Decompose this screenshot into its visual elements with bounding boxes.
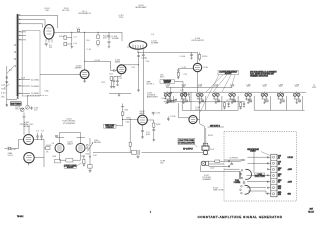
svg-text:R-104: R-104 bbox=[59, 36, 65, 38]
ground bbox=[152, 140, 155, 142]
svg-text:R-12: R-12 bbox=[101, 82, 105, 84]
terminal pin numbers bbox=[267, 157, 268, 196]
tube V101 RF oscillator bbox=[44, 25, 54, 40]
svg-text:J-102: J-102 bbox=[210, 168, 214, 170]
capacitor C102 bbox=[45, 44, 48, 47]
wire V1 plate bus bbox=[54, 31, 122, 33]
range stage I bbox=[293, 93, 300, 103]
svg-text:NOTE 1: NOTE 1 bbox=[147, 84, 155, 86]
wire V102 plate bbox=[121, 63, 126, 66]
B plus note wire bbox=[208, 126, 225, 128]
coil tap stub 5 bbox=[19, 85, 30, 87]
stage labels bbox=[165, 84, 316, 100]
bus junction dots bbox=[167, 92, 297, 93]
coil tap stub 1 bbox=[19, 31, 26, 33]
range stage F bbox=[245, 93, 252, 103]
ground bbox=[70, 47, 73, 49]
linkage dash line bbox=[27, 94, 48, 96]
svg-text:BUS: BUS bbox=[278, 188, 281, 190]
cathode bus bbox=[60, 153, 81, 161]
svg-text:3-12: 3-12 bbox=[279, 86, 282, 88]
resistor R150 bbox=[215, 160, 220, 162]
svg-text:3-12: 3-12 bbox=[263, 86, 266, 88]
svg-text:TRIMMER CAPACITOR: TRIMMER CAPACITOR bbox=[250, 74, 269, 77]
wire top feed 3 bbox=[19, 24, 43, 28]
tuning cap feed bbox=[26, 95, 28, 105]
svg-text:TM 4-17: TM 4-17 bbox=[308, 211, 314, 213]
trimmer C6B bbox=[20, 108, 24, 112]
svg-text:MIXER AMP: MIXER AMP bbox=[135, 6, 147, 9]
svg-text:W-101: W-101 bbox=[208, 135, 213, 137]
capacitor C60 bbox=[55, 136, 58, 137]
grid RC cluster bbox=[177, 69, 193, 79]
polarized caps bbox=[243, 181, 245, 185]
coil tap stub 3 bbox=[19, 39, 26, 41]
cathode network bbox=[114, 74, 121, 77]
tube V106 output amp bbox=[138, 115, 148, 125]
pot output column bbox=[89, 153, 91, 165]
svg-text:R-101: R-101 bbox=[46, 145, 52, 147]
reference designator and value labels bbox=[1, 5, 250, 192]
svg-text:J-101: J-101 bbox=[210, 149, 214, 151]
svg-text:C-2: C-2 bbox=[36, 131, 39, 133]
svg-text:R-83: R-83 bbox=[125, 110, 129, 112]
svg-text:C-4: C-4 bbox=[52, 143, 55, 145]
svg-text:Z-101: Z-101 bbox=[127, 47, 131, 49]
balance resistor R61 bbox=[66, 158, 73, 162]
trimmer C6A bbox=[26, 105, 30, 109]
connector J101 assembly bbox=[202, 143, 209, 155]
wire bypass column bbox=[138, 56, 140, 90]
svg-text:R-58: R-58 bbox=[52, 156, 56, 158]
capacitor C54A bbox=[137, 52, 140, 56]
capacitor C119 hang bbox=[243, 102, 245, 107]
svg-text:30 MMF: 30 MMF bbox=[151, 43, 159, 45]
wire coilbox to buffer grid bbox=[40, 73, 80, 75]
svg-text:6.3V: 6.3V bbox=[278, 162, 281, 164]
level label box bbox=[64, 165, 77, 169]
transformer T101 core bbox=[240, 172, 241, 180]
ground bbox=[83, 81, 86, 83]
svg-text:R-11: R-11 bbox=[109, 74, 113, 76]
svg-text:TM 44-2: TM 44-2 bbox=[17, 216, 23, 218]
svg-text:3-12: 3-12 bbox=[247, 86, 250, 88]
wire label to grid column bbox=[116, 125, 123, 127]
capacitor C131 bbox=[167, 117, 170, 122]
tube V102B crystal osc bbox=[24, 153, 34, 163]
terminal board TB101 bbox=[269, 154, 277, 197]
output label box bbox=[178, 138, 195, 144]
capacitor C103 bbox=[108, 32, 111, 46]
oscillator bus upper bbox=[166, 86, 232, 88]
svg-text:12AU7: 12AU7 bbox=[67, 143, 74, 146]
svg-text:SECT: SECT bbox=[160, 77, 165, 79]
extra cap C121 bbox=[116, 76, 119, 85]
grid feed caps top bbox=[23, 113, 30, 135]
pointer to connector bbox=[195, 144, 198, 147]
svg-text:RF OUTPUT: RF OUTPUT bbox=[183, 149, 193, 151]
svg-text:3-12: 3-12 bbox=[230, 86, 233, 88]
resistor R63 bbox=[83, 155, 85, 167]
capacitor C6C bbox=[30, 107, 32, 111]
range stage C bbox=[197, 93, 204, 103]
svg-text:C-55: C-55 bbox=[131, 67, 135, 69]
range stage G bbox=[261, 93, 268, 103]
capacitor C65 bbox=[88, 165, 92, 169]
resistor R130 bbox=[152, 120, 155, 140]
tube V103 oscillator bbox=[193, 63, 201, 71]
grid capacitor C11 bbox=[111, 69, 118, 72]
svg-text:REAR VIEW: REAR VIEW bbox=[255, 175, 265, 178]
wire coax feed bbox=[197, 96, 205, 127]
svg-text:SEE NOTE 2: SEE NOTE 2 bbox=[210, 125, 220, 127]
resistor R105 bbox=[64, 42, 67, 45]
variable capacitor C26A bbox=[165, 99, 177, 104]
wire buffer cathode bbox=[84, 79, 86, 81]
jack J102 bbox=[201, 161, 209, 166]
svg-text:6AQ5: 6AQ5 bbox=[139, 112, 145, 115]
potentiometer R160 bbox=[86, 138, 93, 153]
tube V102A crystal osc bbox=[24, 135, 34, 145]
resistor R102 bbox=[97, 32, 99, 46]
svg-text:C-65: C-65 bbox=[93, 155, 97, 157]
V106 cathode chain bbox=[141, 125, 144, 137]
grounds bbox=[110, 86, 115, 88]
svg-text:CONSTANT-AMPLITUDE SIGNAL GENE: CONSTANT-AMPLITUDE SIGNAL GENERATOR bbox=[198, 215, 283, 219]
coil tap stub 6 bbox=[19, 93, 30, 95]
fine tune feed bbox=[179, 103, 189, 118]
svg-text:5-25: 5-25 bbox=[174, 100, 177, 102]
switch rear view box bbox=[255, 173, 265, 178]
ground bbox=[136, 156, 139, 158]
trimmer label box bbox=[160, 80, 175, 85]
svg-text:OSCILLATOR: OSCILLATOR bbox=[191, 39, 204, 42]
wire to V103 bbox=[197, 52, 199, 63]
resistor R119 hang bbox=[239, 102, 241, 110]
svg-text:R-63: R-63 bbox=[86, 154, 90, 156]
stub resistor E1 bbox=[27, 163, 32, 166]
resistor R118 hang bbox=[223, 102, 225, 110]
svg-text:INTERMED B: INTERMED B bbox=[78, 13, 91, 15]
svg-text:C-56: C-56 bbox=[146, 61, 150, 63]
svg-text:3-12: 3-12 bbox=[295, 86, 298, 88]
svg-text:1.5-7: 1.5-7 bbox=[195, 109, 199, 111]
coarse frequency label box bbox=[218, 70, 239, 75]
range stage D bbox=[213, 93, 220, 103]
alignment note text bbox=[250, 70, 277, 77]
capacitor C106 bbox=[190, 52, 193, 59]
callout drop bbox=[253, 151, 255, 173]
svg-text:S2 FRONT: S2 FRONT bbox=[230, 158, 238, 160]
wire jack lines right bbox=[209, 161, 241, 166]
plate supply lines bbox=[56, 133, 86, 144]
wire V106 plate right bbox=[147, 119, 154, 121]
strip feed wires bbox=[247, 157, 269, 194]
svg-text:R-88: R-88 bbox=[146, 134, 150, 136]
wire from label box bbox=[175, 82, 184, 88]
coil tap stub 4 bbox=[19, 79, 30, 81]
wire buffer plate feed bbox=[84, 32, 86, 70]
wire V103 cathode down bbox=[197, 72, 199, 93]
svg-text:R-22: R-22 bbox=[246, 100, 250, 102]
wire jack to panel bbox=[201, 165, 240, 171]
cathode bus line bbox=[109, 93, 131, 95]
tube V102 amplifier bbox=[117, 65, 126, 74]
svg-text:CHAMBER: CHAMBER bbox=[202, 178, 211, 181]
svg-text:S-1: S-1 bbox=[9, 70, 12, 72]
wire crystal to grid bbox=[14, 140, 24, 149]
left drop R87 bbox=[129, 119, 131, 152]
svg-text:C-12: C-12 bbox=[119, 78, 123, 80]
wire B feed long bbox=[142, 56, 144, 115]
svg-text:10 MMF: 10 MMF bbox=[112, 38, 120, 40]
linkage diagonals bbox=[200, 75, 236, 113]
svg-text:40-75MC: 40-75MC bbox=[31, 80, 40, 82]
svg-text:METER: METER bbox=[94, 142, 102, 144]
stage return bus right bbox=[254, 109, 304, 111]
svg-text:6AH6: 6AH6 bbox=[115, 61, 121, 64]
svg-text:3-12: 3-12 bbox=[182, 86, 185, 88]
svg-text:C-130: C-130 bbox=[170, 116, 176, 118]
tube V101B buffer bbox=[80, 70, 89, 79]
stage return verticals left bbox=[174, 96, 239, 110]
svg-text:+105V: +105V bbox=[288, 181, 292, 183]
svg-text:OSC TUNE: OSC TUNE bbox=[15, 108, 25, 110]
coax line pair bbox=[205, 127, 206, 147]
svg-text:3-12: 3-12 bbox=[34, 110, 37, 112]
resistor R110 bbox=[198, 52, 200, 61]
svg-text:R-59: R-59 bbox=[82, 156, 86, 158]
stage return verticals right bbox=[254, 96, 303, 110]
ground bbox=[137, 90, 140, 92]
range stage E bbox=[229, 93, 236, 103]
svg-text:S-101: S-101 bbox=[1, 93, 6, 95]
range stage B bbox=[180, 93, 187, 103]
stage coil windings bbox=[169, 100, 300, 103]
svg-text:RF OSC: RF OSC bbox=[62, 10, 70, 12]
svg-text:TO OSCILLOSCOPE: TO OSCILLOSCOPE bbox=[178, 142, 195, 144]
node dots bbox=[71, 32, 72, 33]
svg-text:220: 220 bbox=[49, 47, 52, 49]
svg-text:C-1 47: C-1 47 bbox=[11, 149, 16, 151]
dashed power supply enclosure bbox=[224, 132, 297, 202]
svg-text:C-106: C-106 bbox=[180, 56, 186, 58]
main tuning box bbox=[11, 102, 22, 106]
svg-text:CONTROL: CONTROL bbox=[106, 127, 114, 129]
terminal arrows bbox=[288, 156, 294, 196]
attenuator bar S101 bbox=[16, 14, 20, 97]
range stage H bbox=[277, 93, 284, 103]
svg-text:C-84: C-84 bbox=[126, 122, 130, 124]
svg-text:CHART: CHART bbox=[250, 150, 256, 153]
svg-text:C-22: C-22 bbox=[183, 74, 187, 76]
svg-text:VOLTMETER: VOLTMETER bbox=[63, 123, 76, 125]
capacitor C96 top bbox=[152, 112, 155, 115]
svg-text:4847: 4847 bbox=[309, 208, 313, 210]
svg-text:ADJUST: ADJUST bbox=[67, 166, 74, 169]
tube Z101 multiplier bbox=[129, 41, 147, 49]
svg-text:75 MC: 75 MC bbox=[1, 89, 7, 91]
svg-text:3-12: 3-12 bbox=[166, 86, 169, 88]
svg-text:3-12: 3-12 bbox=[198, 86, 201, 88]
wire xtal section bbox=[34, 140, 45, 168]
sub return line bbox=[182, 109, 238, 111]
svg-text:R-21: R-21 bbox=[231, 100, 235, 102]
resistor R120 bbox=[110, 76, 113, 86]
switch S102B bbox=[240, 185, 250, 194]
bar left stubs bbox=[14, 45, 17, 66]
svg-text:LINE CORD: LINE CORD bbox=[213, 190, 224, 192]
capacitor C115 bbox=[188, 93, 190, 97]
left pad E2 bbox=[55, 159, 61, 163]
range stage A bbox=[164, 93, 171, 103]
svg-text:150V: 150V bbox=[278, 174, 282, 176]
fine tune label box bbox=[104, 124, 117, 129]
wire Z101 output bbox=[138, 49, 198, 52]
grid column R83 bbox=[121, 104, 138, 126]
coil box enclosure bbox=[22, 31, 40, 96]
svg-text:MIXER: MIXER bbox=[23, 126, 30, 128]
svg-text:10-20MC: 10-20MC bbox=[31, 93, 40, 95]
input arrow down bbox=[6, 100, 8, 107]
ground bbox=[108, 47, 110, 49]
svg-text:+150V: +150V bbox=[288, 169, 292, 171]
resistor R113 bbox=[184, 93, 186, 96]
svg-text:C-3: C-3 bbox=[41, 131, 44, 133]
voltage chart callout bbox=[247, 148, 270, 156]
tube V104 fine tuning bbox=[189, 115, 197, 123]
svg-text:ADJUST: ADJUST bbox=[225, 72, 232, 75]
svg-text:L-101: L-101 bbox=[1, 85, 5, 87]
svg-text:105V: 105V bbox=[278, 180, 282, 182]
capacitor C3 bbox=[40, 133, 43, 140]
bar wiper tip bbox=[17, 97, 19, 99]
svg-text:POWER: POWER bbox=[234, 182, 241, 184]
capacitor C56 bbox=[142, 49, 145, 56]
left input column bbox=[4, 66, 17, 100]
switch S102 front contacts bbox=[228, 160, 233, 167]
svg-text:Y-101: Y-101 bbox=[7, 155, 13, 157]
grid branch column bbox=[67, 32, 72, 46]
frame verticals bbox=[182, 87, 191, 110]
svg-text:6.3V: 6.3V bbox=[278, 156, 281, 158]
svg-text:20-40MC: 20-40MC bbox=[31, 86, 40, 88]
svg-text:AMPLIFIER: AMPLIFIER bbox=[147, 96, 158, 99]
wire top feed 2 bbox=[19, 20, 45, 26]
power wires bbox=[224, 160, 241, 169]
stage return bus left bbox=[164, 101, 245, 103]
rf output wire bbox=[142, 151, 204, 153]
ground mid bbox=[118, 94, 120, 97]
oscillator bus lower bbox=[164, 91, 307, 93]
terminal labels bbox=[278, 156, 282, 196]
svg-text:ADJUST: ADJUST bbox=[164, 81, 171, 84]
wire V102 plate join bbox=[126, 64, 139, 66]
svg-text:3-12: 3-12 bbox=[214, 86, 217, 88]
svg-text:C-9 100: C-9 100 bbox=[94, 60, 100, 62]
capacitor C118 hang bbox=[227, 102, 229, 107]
resistor R101 bbox=[44, 147, 50, 150]
resistor R104 bbox=[64, 36, 67, 39]
capacitor C2 bbox=[36, 133, 39, 140]
capacitor C120 bbox=[113, 76, 116, 86]
svg-text:BUS: BUS bbox=[278, 194, 281, 196]
svg-text:C-54A: C-54A bbox=[141, 57, 147, 60]
tube V105A meter triode bbox=[55, 144, 64, 153]
switch S102A bbox=[240, 169, 251, 179]
coil tap stub 2 bbox=[19, 35, 26, 37]
parasitic choke on bus bbox=[77, 29, 80, 31]
svg-text:150V: 150V bbox=[278, 168, 282, 170]
tube V105B meter triode bbox=[76, 144, 85, 153]
linkage arrow bbox=[76, 163, 81, 166]
coupling box C140 bbox=[93, 150, 139, 155]
svg-text:4: 4 bbox=[150, 212, 151, 214]
wire interstage bbox=[85, 61, 111, 70]
wire C104 drop bbox=[121, 32, 123, 41]
crystal Y101 bbox=[5, 147, 15, 150]
svg-text:BUFFER: BUFFER bbox=[75, 68, 83, 70]
ground bbox=[141, 137, 144, 139]
wire top feed 1 bbox=[19, 15, 58, 28]
svg-text:C-26: C-26 bbox=[180, 90, 184, 92]
trimmer feed C26 bbox=[169, 87, 172, 100]
svg-text:R-110: R-110 bbox=[202, 56, 208, 58]
